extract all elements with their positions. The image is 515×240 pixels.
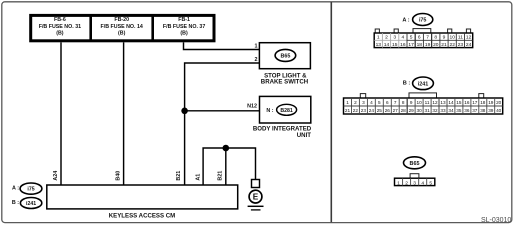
svg-text:18: 18 (417, 42, 423, 48)
svg-text:20: 20 (496, 100, 502, 105)
svg-text:26: 26 (385, 108, 391, 113)
diagram ID SL-03010 (481, 217, 511, 224)
svg-text:B65: B65 (280, 54, 290, 60)
svg-text:B40: B40 (115, 171, 121, 181)
svg-text:i75: i75 (27, 187, 34, 193)
svg-text:B :: B : (12, 200, 19, 206)
pin A24 label (53, 171, 59, 181)
wire FB-6 to pin A24 (60, 42, 62, 185)
svg-text:(B): (B) (180, 30, 188, 36)
svg-text:12: 12 (466, 35, 472, 41)
svg-text:9: 9 (443, 35, 446, 41)
svg-text:17: 17 (408, 42, 414, 48)
svg-text:UNIT: UNIT (297, 132, 311, 139)
keyless access CM caption (109, 212, 175, 219)
svg-text:i75: i75 (419, 17, 427, 23)
svg-text:F/B FUSE NO. 31: F/B FUSE NO. 31 (39, 24, 81, 30)
svg-text:19: 19 (488, 100, 494, 105)
pin 1 label stop light switch (255, 44, 258, 50)
body integrated unit B281 box (260, 96, 311, 123)
svg-text:A24: A24 (53, 171, 59, 181)
svg-text:KEYLESS ACCESS CM: KEYLESS ACCESS CM (109, 212, 175, 219)
svg-text:i241: i241 (26, 201, 36, 207)
svg-text:B :: B : (403, 81, 411, 87)
svg-text:FB-1: FB-1 (178, 17, 190, 23)
svg-text:B281: B281 (280, 108, 293, 114)
svg-text:13: 13 (376, 42, 382, 48)
svg-text:30: 30 (416, 108, 422, 113)
svg-text:31: 31 (424, 108, 430, 113)
svg-text:24: 24 (369, 108, 375, 113)
svg-text:FB-20: FB-20 (114, 17, 129, 23)
body integrated unit caption (253, 126, 312, 140)
ground E circle (249, 190, 262, 203)
svg-text:3: 3 (393, 35, 396, 41)
svg-text:N :: N : (266, 108, 273, 114)
connector A i75 pinout grid (374, 29, 473, 48)
wire node to body integrated unit N12 (185, 110, 260, 112)
svg-text:E: E (253, 193, 259, 202)
svg-text:FB-6: FB-6 (54, 17, 66, 23)
svg-text:21: 21 (345, 108, 351, 113)
svg-text:10: 10 (449, 35, 455, 41)
svg-text:(B): (B) (118, 30, 126, 36)
junction node on ground bus (223, 145, 230, 152)
connector B65 pinout grid (395, 174, 435, 187)
svg-text:SL-03010: SL-03010 (481, 217, 511, 224)
svg-text:7: 7 (394, 100, 397, 105)
svg-text:(B): (B) (56, 30, 64, 36)
svg-text:3: 3 (413, 180, 416, 186)
svg-text:21: 21 (441, 42, 447, 48)
svg-text:36: 36 (464, 108, 470, 113)
svg-text:29: 29 (409, 108, 415, 113)
svg-text:11: 11 (458, 35, 463, 41)
svg-text:27: 27 (393, 108, 399, 113)
svg-text:A1: A1 (196, 174, 202, 181)
svg-text:2: 2 (255, 57, 258, 63)
svg-text:2: 2 (405, 180, 408, 186)
svg-text:5: 5 (410, 35, 413, 41)
svg-text:34: 34 (448, 108, 454, 113)
svg-text:38: 38 (480, 108, 486, 113)
connector B65 pinout label (404, 157, 426, 169)
connector B i241 pinout label (403, 77, 434, 90)
svg-text:23: 23 (458, 42, 464, 48)
svg-text:28: 28 (401, 108, 407, 113)
svg-text:40: 40 (496, 108, 502, 113)
wire FB-20 to pin B40 (123, 42, 125, 185)
pin B21 label (176, 171, 182, 181)
pin B21 label second (218, 171, 224, 181)
pin 2 label stop light switch (255, 57, 258, 63)
svg-text:5: 5 (378, 100, 381, 105)
svg-text:23: 23 (361, 108, 367, 113)
svg-text:24: 24 (466, 42, 472, 48)
svg-text:8: 8 (402, 100, 405, 105)
svg-text:1: 1 (255, 44, 258, 50)
fuse FB-1 label (163, 17, 205, 36)
svg-text:8: 8 (434, 35, 437, 41)
svg-text:6: 6 (386, 100, 389, 105)
wire stop light switch pin 2 to node and pin B21 (185, 63, 260, 185)
panel separator (330, 2, 332, 222)
svg-text:15: 15 (456, 100, 462, 105)
svg-text:BRAKE SWITCH: BRAKE SWITCH (261, 79, 308, 86)
svg-text:B21: B21 (176, 171, 182, 181)
svg-text:3: 3 (362, 100, 365, 105)
svg-text:32: 32 (432, 108, 438, 113)
svg-text:4: 4 (402, 35, 405, 41)
wire FB-1 to stop light switch pin 1 (184, 42, 260, 49)
svg-text:2: 2 (385, 35, 388, 41)
svg-text:15: 15 (392, 42, 398, 48)
ground connector square (252, 180, 260, 188)
svg-text:35: 35 (456, 108, 462, 113)
svg-text:A :: A : (402, 17, 409, 23)
svg-text:14: 14 (384, 42, 390, 48)
svg-text:B65: B65 (410, 161, 420, 167)
svg-text:37: 37 (472, 108, 478, 113)
svg-text:18: 18 (480, 100, 486, 105)
svg-text:17: 17 (472, 100, 478, 105)
svg-text:25: 25 (377, 108, 383, 113)
connector A i75 pinout label (402, 14, 432, 26)
connector ref A i75 at CM (12, 183, 42, 194)
ground hatch (248, 206, 264, 210)
svg-text:F/B FUSE NO. 14: F/B FUSE NO. 14 (101, 24, 143, 30)
svg-text:20: 20 (433, 42, 439, 48)
svg-text:13: 13 (440, 100, 446, 105)
stop light switch B65 box (259, 43, 310, 69)
svg-text:12: 12 (432, 100, 438, 105)
svg-text:1: 1 (346, 100, 349, 105)
svg-text:16: 16 (464, 100, 470, 105)
svg-text:22: 22 (449, 42, 455, 48)
svg-text:5: 5 (429, 180, 432, 186)
keyless access CM box (47, 185, 238, 209)
svg-text:39: 39 (488, 108, 494, 113)
svg-text:19: 19 (425, 42, 431, 48)
stop light switch caption (261, 72, 308, 85)
svg-text:F/B FUSE NO. 37: F/B FUSE NO. 37 (163, 24, 205, 30)
svg-text:4: 4 (370, 100, 373, 105)
fuse FB-6 label (39, 17, 81, 36)
pin A1 label (196, 174, 202, 181)
svg-text:14: 14 (448, 100, 454, 105)
svg-text:22: 22 (353, 108, 359, 113)
junction node on pin2 bus (181, 108, 188, 115)
svg-text:1: 1 (397, 180, 400, 186)
svg-text:B21: B21 (218, 171, 224, 181)
pin N12 label body integrated unit (247, 104, 257, 110)
svg-text:7: 7 (426, 35, 429, 41)
svg-text:10: 10 (416, 100, 422, 105)
svg-text:33: 33 (440, 108, 446, 113)
connector ref B i241 at CM (12, 198, 42, 209)
wire ground bus A1 B21 to E (203, 148, 255, 185)
svg-text:2: 2 (354, 100, 357, 105)
fuse box FB (31, 15, 214, 40)
connector B i241 pinout grid (344, 93, 503, 114)
svg-text:9: 9 (410, 100, 413, 105)
svg-text:6: 6 (418, 35, 421, 41)
svg-text:11: 11 (425, 100, 430, 105)
svg-text:N12: N12 (247, 104, 257, 110)
svg-text:i241: i241 (418, 81, 429, 87)
svg-text:A :: A : (12, 185, 19, 191)
pin B40 label (115, 171, 121, 181)
svg-text:1: 1 (377, 35, 380, 41)
svg-text:4: 4 (421, 180, 424, 186)
svg-text:16: 16 (400, 42, 406, 48)
fuse FB-20 label (101, 17, 143, 36)
